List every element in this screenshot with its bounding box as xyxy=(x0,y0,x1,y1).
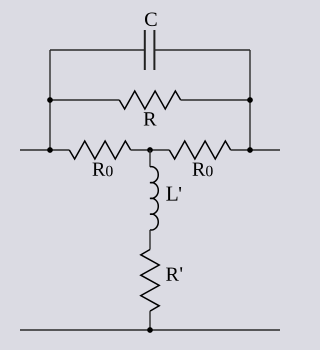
wire middle rail center xyxy=(131,149,170,151)
wire bottom rail xyxy=(20,329,280,331)
label R0 right xyxy=(193,163,213,177)
wire R left lead xyxy=(50,99,119,101)
wire middle rail left terminal xyxy=(20,149,69,151)
label C xyxy=(145,13,157,27)
wire middle rail right terminal xyxy=(231,149,280,151)
wire inductor top lead xyxy=(149,150,151,167)
label L' xyxy=(166,187,181,201)
label R xyxy=(144,112,157,125)
wire R right lead xyxy=(181,99,250,101)
resistor R0 left xyxy=(69,141,130,159)
node dot right at middle rail xyxy=(247,147,253,153)
node dot right at R wire xyxy=(247,97,253,103)
wire right vertical xyxy=(249,50,251,150)
resistor R0 right xyxy=(169,141,230,159)
node dot left at R wire xyxy=(47,97,53,103)
wire R' bottom lead xyxy=(149,311,151,330)
inductor L' xyxy=(150,167,158,230)
node dot left at middle rail xyxy=(47,147,53,153)
node dot bottom rail xyxy=(147,327,153,333)
wire inductor to R' xyxy=(149,230,151,250)
resistor R xyxy=(119,91,180,109)
resistor R' xyxy=(141,250,159,312)
label R' xyxy=(166,267,182,281)
capacitor C xyxy=(145,30,155,70)
wire left vertical xyxy=(49,50,51,150)
wire top rail right xyxy=(154,49,250,51)
wire top rail left xyxy=(50,49,145,51)
label R0 left xyxy=(93,163,113,177)
node dot center at middle rail xyxy=(147,147,153,153)
